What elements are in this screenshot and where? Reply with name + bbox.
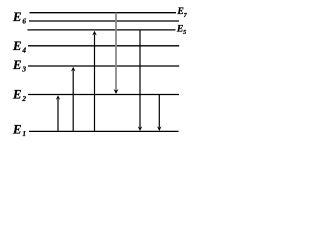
label E3 (12, 58, 26, 74)
arrow E1 to E5 (up) (92, 31, 96, 132)
svg-text:3: 3 (21, 65, 26, 74)
svg-text:7: 7 (184, 12, 188, 19)
level line E1 (29, 130, 179, 132)
svg-text:5: 5 (183, 29, 186, 36)
svg-text:E: E (12, 10, 21, 24)
label E1 (12, 122, 26, 138)
label E2 (12, 88, 26, 104)
level line E2 (28, 94, 179, 96)
label E7 (176, 6, 187, 19)
arrow E1 to E2 (up) (56, 95, 60, 131)
svg-text:E: E (12, 122, 21, 136)
svg-text:E: E (12, 58, 21, 72)
level line E3 (28, 65, 179, 67)
arrow E5 to E1 (down) (138, 30, 142, 131)
svg-text:4: 4 (21, 45, 26, 54)
label E4 (12, 39, 26, 55)
level line E7 (30, 12, 177, 14)
arrow E2 to E1 (down) (157, 95, 161, 132)
svg-text:E: E (12, 88, 21, 102)
level line E6 (29, 20, 179, 22)
svg-text:2: 2 (21, 94, 26, 103)
label E5 (176, 24, 186, 37)
svg-text:1: 1 (22, 129, 26, 138)
level line E5 (28, 29, 176, 31)
arrow E1 to E3 (up) (71, 67, 75, 132)
arrow E7 to E2 (down, gray shaft) (114, 13, 119, 94)
svg-text:6: 6 (22, 16, 26, 25)
label E6 (12, 10, 26, 26)
svg-text:E: E (12, 39, 21, 53)
level line E4 (28, 45, 179, 47)
